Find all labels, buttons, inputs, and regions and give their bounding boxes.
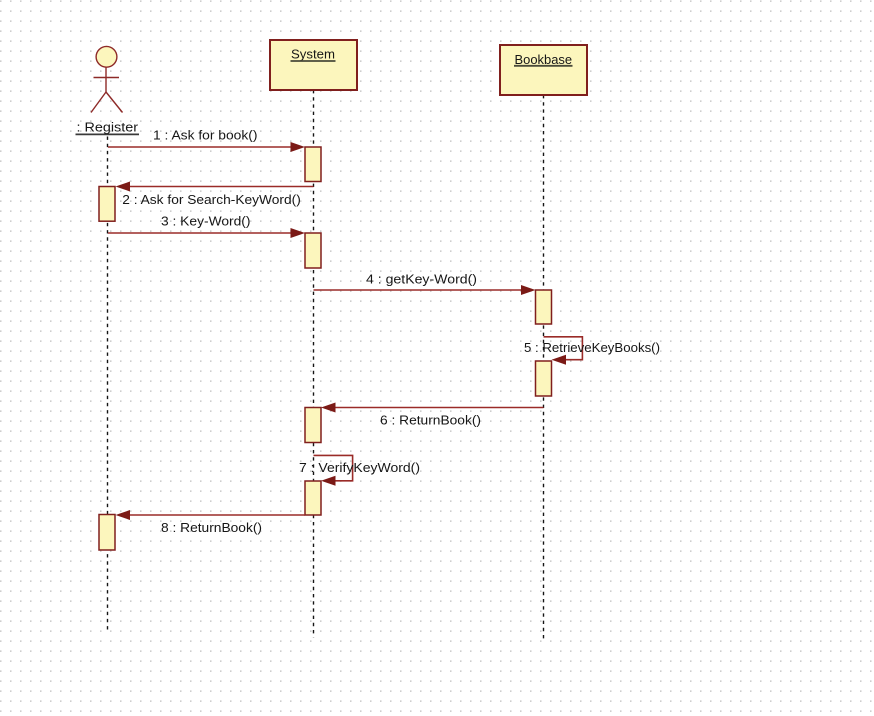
- svg-text:4 : getKey-Word(): 4 : getKey-Word(): [366, 272, 477, 287]
- svg-text:6 : ReturnBook(): 6 : ReturnBook(): [380, 413, 481, 428]
- svg-text:: Register: : Register: [77, 120, 139, 135]
- svg-text:7 : VerifyKeyWord(): 7 : VerifyKeyWord(): [299, 460, 420, 475]
- svg-text:8 : ReturnBook(): 8 : ReturnBook(): [161, 520, 262, 535]
- svg-text:1 : Ask for book(): 1 : Ask for book(): [153, 128, 258, 143]
- svg-text:Bookbase: Bookbase: [515, 52, 573, 67]
- svg-text:System: System: [291, 47, 335, 62]
- svg-text:3 : Key-Word(): 3 : Key-Word(): [161, 214, 251, 229]
- svg-text:2 : Ask for Search-KeyWord(): 2 : Ask for Search-KeyWord(): [122, 192, 300, 207]
- svg-text:5 : RetrieveKeyBooks(): 5 : RetrieveKeyBooks(): [524, 340, 660, 355]
